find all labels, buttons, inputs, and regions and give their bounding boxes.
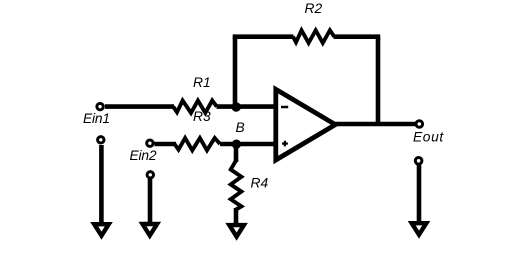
- ground arrow under Ein2: [143, 224, 158, 236]
- resistor R4: [231, 161, 242, 210]
- wire R1 to op-amp minus input: [217, 104, 280, 109]
- resistor R3: [175, 138, 221, 150]
- svg-text:Eout: Eout: [413, 130, 444, 145]
- terminal Ein1: [97, 103, 103, 109]
- ground arrow under Eout: [412, 223, 427, 235]
- op-amp plus sign: [282, 143, 288, 145]
- wire op-amp output to Eout: [335, 122, 416, 127]
- svg-text:Ein2: Ein2: [130, 148, 157, 163]
- ground arrow under R4: [229, 225, 244, 237]
- wire ground under Eout: [417, 165, 422, 225]
- wire node B down to R4: [234, 144, 239, 162]
- svg-text:R3: R3: [193, 109, 211, 124]
- wire ground under Ein2: [148, 179, 153, 226]
- wire ground under Ein1: [99, 145, 104, 226]
- wire feedback top right horizontal: [334, 34, 381, 39]
- junction node at inverting input: [232, 102, 241, 111]
- wire Ein1 to R1: [105, 104, 174, 109]
- wire Ein2 to R3: [155, 142, 177, 147]
- op-amp minus sign: [281, 106, 288, 109]
- ground terminal under Ein2: [147, 172, 153, 178]
- ground terminal under Eout: [415, 158, 422, 165]
- terminal Ein2: [147, 140, 153, 146]
- op-amp U1: [276, 89, 336, 160]
- node B junction dot: [232, 140, 241, 149]
- ground arrow under Ein1: [94, 224, 109, 236]
- ground terminal under Ein1: [98, 137, 104, 143]
- resistor R2: [293, 30, 334, 43]
- wire feedback left vertical: [233, 37, 238, 107]
- resistor R1: [173, 101, 217, 113]
- svg-text:Ein1: Ein1: [83, 111, 110, 126]
- svg-text:R2: R2: [305, 1, 323, 16]
- wire feedback right vertical: [376, 37, 381, 124]
- wire R3 to op-amp plus input: [220, 142, 279, 147]
- svg-text:B: B: [236, 120, 245, 135]
- svg-text:R4: R4: [251, 176, 269, 191]
- wire R4 to ground arrow: [234, 208, 239, 227]
- wire feedback top left horizontal: [233, 34, 294, 39]
- terminal Eout: [416, 121, 423, 128]
- svg-text:R1: R1: [193, 75, 211, 90]
